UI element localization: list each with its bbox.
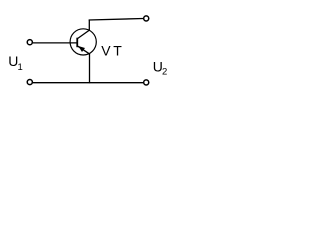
svg-text:2: 2 <box>162 67 167 78</box>
svg-text:T: T <box>113 43 122 59</box>
svg-text:1: 1 <box>18 62 23 73</box>
svg-text:V: V <box>101 43 111 59</box>
